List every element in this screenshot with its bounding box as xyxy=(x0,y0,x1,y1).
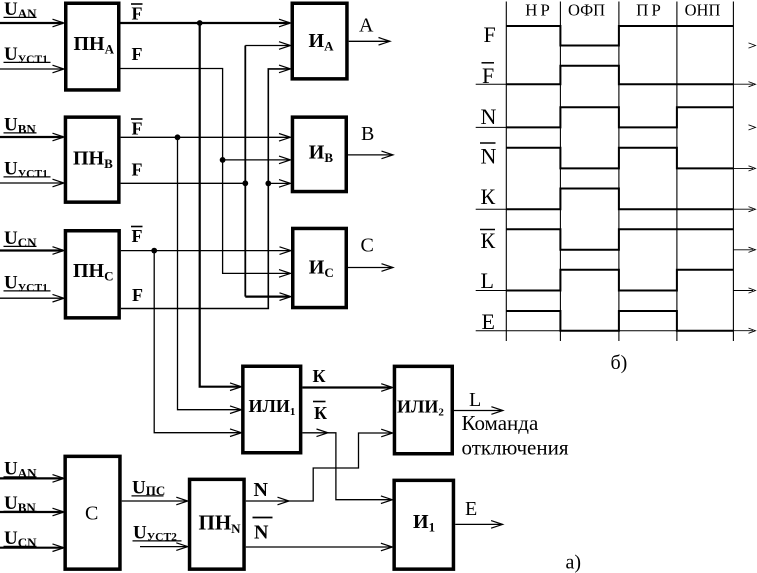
svg-text:К: К xyxy=(481,228,496,253)
svg-text:L: L xyxy=(481,268,494,293)
svg-text:В: В xyxy=(361,123,374,145)
svg-text:F: F xyxy=(132,4,143,24)
svg-text:С: С xyxy=(85,503,98,525)
svg-text:ИЛИ1: ИЛИ1 xyxy=(249,396,296,418)
svg-text:N: N xyxy=(481,144,497,169)
svg-text:б): б) xyxy=(611,352,628,374)
svg-text:N: N xyxy=(254,522,269,544)
svg-text:F: F xyxy=(132,160,143,180)
svg-text:а): а) xyxy=(566,552,582,573)
svg-text:Е: Е xyxy=(482,309,495,334)
svg-text:К: К xyxy=(314,403,327,423)
svg-text:F: F xyxy=(132,44,143,64)
svg-text:ОФП: ОФП xyxy=(568,1,605,20)
svg-text:Е: Е xyxy=(465,498,477,520)
svg-text:F: F xyxy=(132,119,143,139)
svg-text:Команда: Команда xyxy=(462,411,539,435)
svg-text:F: F xyxy=(482,63,494,88)
svg-text:НР: НР xyxy=(525,1,553,20)
svg-text:F: F xyxy=(132,226,143,246)
svg-text:F: F xyxy=(484,22,496,47)
svg-text:А: А xyxy=(359,15,374,37)
svg-text:N: N xyxy=(254,479,269,501)
svg-text:С: С xyxy=(361,235,374,257)
svg-text:ИЛИ2: ИЛИ2 xyxy=(397,397,444,419)
svg-text:N: N xyxy=(481,104,497,129)
svg-text:L: L xyxy=(469,389,481,411)
svg-text:отключения: отключения xyxy=(462,436,569,460)
svg-text:ПР: ПР xyxy=(636,1,664,20)
svg-text:ОНП: ОНП xyxy=(685,1,721,20)
svg-text:F: F xyxy=(132,285,143,305)
svg-text:К: К xyxy=(481,184,496,209)
svg-text:К: К xyxy=(313,366,326,386)
